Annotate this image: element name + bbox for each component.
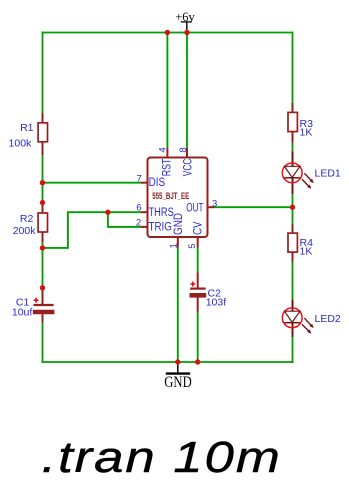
- svg-text:10uf: 10uf: [12, 307, 33, 319]
- wire right rail R3-LED1: [292, 143, 294, 151]
- capacitor C2: [190, 272, 207, 312]
- svg-text:6: 6: [136, 203, 141, 214]
- ground symbol: [164, 362, 192, 391]
- wire right rail lower: [292, 337, 294, 363]
- wire top rail: [42, 32, 294, 34]
- svg-text:GND: GND: [173, 213, 185, 235]
- svg-text:THRS: THRS: [149, 207, 175, 219]
- junction dot top pin4: [165, 30, 170, 35]
- svg-text:4: 4: [158, 147, 169, 152]
- wire left rail R2-C1: [42, 243, 44, 288]
- capacitor C1: [33, 288, 55, 323]
- svg-text:7: 7: [137, 173, 142, 184]
- svg-text:2: 2: [136, 217, 141, 228]
- junction dot top pin8: [184, 30, 189, 35]
- resistor R2: [38, 203, 47, 243]
- resistor R4: [288, 224, 297, 262]
- svg-text:1K: 1K: [300, 246, 313, 258]
- wire TRIG branch: [108, 212, 141, 227]
- diode LED2: [282, 299, 314, 337]
- wire pin1 GND drop: [177, 247, 179, 362]
- wire bottom rail: [42, 361, 294, 363]
- svg-text:OUT: OUT: [186, 202, 203, 214]
- resistor R3: [288, 103, 297, 143]
- svg-text:GND: GND: [164, 374, 192, 391]
- svg-text:RST: RST: [162, 159, 174, 177]
- svg-text:TRIG: TRIG: [149, 222, 172, 234]
- svg-text:R2: R2: [20, 213, 34, 225]
- wire right rail R4-LED2: [292, 262, 294, 299]
- svg-text:LED2: LED2: [315, 313, 341, 325]
- svg-text:100k: 100k: [9, 137, 33, 149]
- wire THRS net: [43, 212, 142, 248]
- wire left rail upper: [42, 32, 44, 114]
- svg-text:1: 1: [169, 243, 180, 248]
- resistor R1: [38, 113, 47, 155]
- diode LED1: [282, 151, 314, 194]
- wire DIS net: [43, 182, 142, 184]
- op-amp U1 555 timer body: [141, 148, 214, 248]
- wire pin8 drop: [186, 33, 188, 149]
- wire pin5 CV lower: [197, 312, 199, 362]
- svg-text:5: 5: [187, 243, 198, 248]
- svg-text:3: 3: [212, 198, 217, 209]
- wire OUT net: [214, 206, 293, 208]
- wire pin4 drop: [166, 33, 168, 149]
- power flag +6v: [175, 10, 195, 33]
- wire left rail R1-R2: [42, 155, 44, 202]
- svg-text:R1: R1: [20, 122, 34, 134]
- svg-text:103f: 103f: [206, 296, 227, 308]
- svg-text:1K: 1K: [300, 126, 313, 138]
- junction dot C1 top: [40, 285, 45, 290]
- svg-text:VCC: VCC: [183, 159, 195, 177]
- wire right rail upper: [292, 32, 294, 104]
- svg-text:555_BJT_EE: 555_BJT_EE: [152, 191, 189, 201]
- wire right rail LED1-R4: [292, 194, 294, 224]
- junction dot TRIG branch: [105, 210, 110, 215]
- svg-text:200k: 200k: [13, 225, 37, 237]
- junction dot OUT right: [290, 205, 295, 210]
- wire left rail lower: [42, 323, 44, 363]
- wire pin5 CV upper: [197, 247, 199, 272]
- junction dot R2 top: [40, 200, 45, 205]
- svg-text:CV: CV: [193, 221, 205, 235]
- junction dot DIS left: [40, 180, 45, 185]
- svg-text:DIS: DIS: [149, 177, 166, 189]
- junction dot bottom pin5: [195, 359, 200, 364]
- junction dot bottom pin1: [175, 359, 180, 364]
- svg-text:8: 8: [178, 147, 189, 152]
- svg-text:LED1: LED1: [315, 168, 341, 180]
- junction dot R2 bottom: [40, 245, 45, 250]
- svg-text:.tran 10m: .tran 10m: [42, 433, 282, 482]
